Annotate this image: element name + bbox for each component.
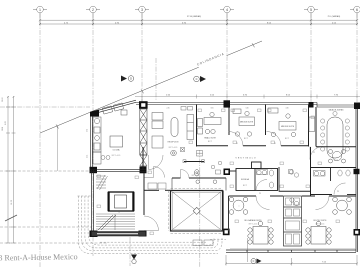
slanted top-left wall xyxy=(91,100,136,114)
office1 desk xyxy=(198,112,222,134)
grid bubble 1 xyxy=(33,6,47,13)
svg-text:MEDIUM SUITE: MEDIUM SUITE xyxy=(240,122,254,124)
column G3 top xyxy=(139,101,148,109)
wc right door arc xyxy=(334,183,346,195)
svg-text:3.40: 3.40 xyxy=(245,108,248,110)
svg-text:P1: P1 xyxy=(236,143,238,145)
corridor wall under offices xyxy=(197,145,309,147)
grid bubble 3 xyxy=(135,6,149,13)
svg-text:N.P.T. +0.15: N.P.T. +0.15 xyxy=(169,147,178,149)
patio center diamond xyxy=(193,207,200,214)
colindancia white halo xyxy=(195,47,227,69)
grid axis vertical 5 xyxy=(310,13,312,102)
horizontal dim short y227 xyxy=(0,226,92,228)
door arc office2 xyxy=(229,132,244,146)
svg-text:4.30: 4.30 xyxy=(285,108,288,110)
patio bottom dashes xyxy=(171,233,223,235)
partition office3/hall xyxy=(308,105,310,147)
reception side cabinets left xyxy=(152,113,163,149)
conference table xyxy=(327,117,343,158)
partition label boxes xyxy=(97,109,340,235)
wc center walls xyxy=(236,162,278,191)
hall bottom wall xyxy=(279,190,311,192)
reception top boxes xyxy=(181,107,193,111)
svg-text:RECEPCION: RECEPCION xyxy=(168,142,179,144)
section marker D xyxy=(121,76,134,82)
door arc conference xyxy=(310,147,323,160)
svg-text:2.62: 2.62 xyxy=(87,129,89,132)
svg-text:N.P.T.: N.P.T. xyxy=(244,138,249,140)
conference chairs left xyxy=(321,119,325,151)
grid bubble 6 xyxy=(350,6,360,13)
svg-text:3.15: 3.15 xyxy=(87,155,89,158)
kitchen counters left xyxy=(93,117,101,164)
bottom dim labels xyxy=(256,262,327,264)
suites bottom window wall xyxy=(226,250,356,252)
stair right wall xyxy=(143,173,145,215)
conference bottom wall xyxy=(316,146,356,148)
svg-text:SALA DE JUNTAS: SALA DE JUNTAS xyxy=(329,109,345,112)
svg-text:VESTIBULO: VESTIBULO xyxy=(235,158,256,160)
svg-text:N.P.T.: N.P.T. xyxy=(285,138,290,140)
grid bubble 2 xyxy=(86,6,100,13)
canopy dashed curve 1 xyxy=(79,196,219,254)
stair left wall xyxy=(92,170,94,234)
mid small furniture xyxy=(289,170,299,206)
landing small rects xyxy=(148,183,166,189)
corridor bottom wall segments xyxy=(144,189,171,191)
grid bubble numbers xyxy=(39,8,358,12)
vestibule south door xyxy=(181,170,190,179)
patio right wall thick xyxy=(222,191,224,232)
conference chairs right xyxy=(333,111,350,151)
suite left round table xyxy=(229,197,248,214)
wc center door arc xyxy=(256,180,267,191)
vestibule mid wall xyxy=(184,161,204,163)
stair up arrow xyxy=(98,215,113,230)
wc center fixtures xyxy=(257,170,274,189)
canopy dashed curve 4 xyxy=(88,196,214,245)
svg-text:P2: P2 xyxy=(313,152,315,154)
svg-text:N.P.T. +0.15: N.P.T. +0.15 xyxy=(249,224,258,226)
svg-text:4: 4 xyxy=(226,8,228,12)
fountain ellipse xyxy=(195,170,200,176)
horizontal dim dashed y171 xyxy=(0,170,92,172)
patio top dashes xyxy=(171,187,223,189)
elevator shaft xyxy=(109,192,134,211)
vestibule wall stub xyxy=(142,147,144,170)
partition reception/office1 xyxy=(196,105,198,147)
suites top wall xyxy=(229,195,357,197)
right exterior wall xyxy=(356,107,358,252)
svg-text:28.60: 28.60 xyxy=(2,127,4,131)
canopy dashed curve 3 xyxy=(85,196,218,248)
svg-text:28.60: 28.60 xyxy=(2,98,4,103)
section marker C xyxy=(194,76,206,82)
door arc office3 xyxy=(267,132,282,146)
stair hatch upper xyxy=(96,175,108,190)
suite right conference table xyxy=(306,221,331,244)
column G4 top xyxy=(224,100,231,107)
column G6 top xyxy=(354,103,360,110)
grid bubble 4 xyxy=(220,6,234,13)
svg-text:N.P.T. +0.15: N.P.T. +0.15 xyxy=(316,224,325,226)
grid axis horizontal A xyxy=(0,106,90,108)
canopy dashed curve 2 xyxy=(82,196,222,251)
svg-text:BIG TEC SUITE: BIG TEC SUITE xyxy=(314,220,328,222)
patio lower table xyxy=(193,240,213,246)
center service fixtures xyxy=(286,198,300,244)
hall west wall xyxy=(278,167,280,192)
vestibule small circles right xyxy=(211,161,222,174)
right top room table xyxy=(329,150,346,164)
patio inner line xyxy=(172,192,220,229)
svg-text:P3: P3 xyxy=(259,193,261,195)
grid axis vertical 3 xyxy=(141,13,143,103)
column patio-suite xyxy=(223,229,230,236)
grid axis vertical 6 xyxy=(356,13,358,102)
dimension labels top xyxy=(64,15,340,24)
column G3 mid xyxy=(140,167,147,174)
canopy dashed line inner xyxy=(100,241,206,243)
top dim labels over wall xyxy=(166,95,339,97)
kitchen door arc xyxy=(149,155,164,170)
svg-text:3.05: 3.05 xyxy=(210,108,213,110)
column G6 mid xyxy=(354,169,360,174)
horizontal dim dashed y243 xyxy=(0,242,108,244)
column stair bottom-left xyxy=(90,231,98,238)
patio diagonals xyxy=(171,191,223,232)
column G5 top xyxy=(309,102,314,108)
kitchen-stair wall xyxy=(90,169,146,171)
svg-text:1: 1 xyxy=(39,8,41,12)
grid axis vertical 4 xyxy=(226,13,228,102)
npt room labels xyxy=(112,138,339,226)
corner column wedge xyxy=(90,110,99,117)
left dim arrow tick xyxy=(5,215,17,221)
column suite bottom-right xyxy=(354,229,360,235)
top dim line over wall xyxy=(135,95,360,104)
svg-text:N.P.T. +0.15: N.P.T. +0.15 xyxy=(192,175,201,177)
ramp centerline xyxy=(129,237,131,266)
kitchen island xyxy=(110,136,123,147)
column-bathroom link wall xyxy=(230,170,236,172)
partition office1/office2 xyxy=(228,108,230,136)
kitchen small table xyxy=(101,156,110,160)
stair treads xyxy=(96,214,135,230)
svg-text:N.P.T.: N.P.T. xyxy=(334,160,339,162)
left vertical dimension line 2 xyxy=(12,96,16,243)
svg-text:P3: P3 xyxy=(337,191,339,193)
vestibule drain circle xyxy=(171,150,177,156)
svg-text:2.45: 2.45 xyxy=(166,108,169,110)
vestibule column circle B xyxy=(213,180,217,184)
kitchen upper cabinets xyxy=(102,103,127,115)
svg-text:BODEGA: BODEGA xyxy=(241,178,249,181)
vestibule south wall stubs xyxy=(172,178,226,191)
svg-text:N.P.T.: N.P.T. xyxy=(243,185,248,187)
bottom marker C xyxy=(251,259,262,264)
right room partition xyxy=(310,147,312,196)
svg-text:SMALL SUITE: SMALL SUITE xyxy=(204,137,216,140)
svg-text:P.V. (VARIAS): P.V. (VARIAS) xyxy=(328,15,341,18)
svg-text:2: 2 xyxy=(92,8,94,12)
reception shelving wall xyxy=(140,109,147,166)
stair bottom wall xyxy=(92,232,146,237)
left vertical dimension line 1 xyxy=(6,96,10,243)
svg-text:6: 6 xyxy=(356,8,358,12)
top dimension line B xyxy=(40,23,357,25)
wall dim strings top offices xyxy=(166,108,288,110)
svg-text:5: 5 xyxy=(310,8,312,12)
svg-text:MEDIUM SUITE: MEDIUM SUITE xyxy=(281,126,295,128)
grid axis vertical 2 xyxy=(92,13,94,256)
svg-text:3: 3 xyxy=(141,8,143,12)
center service block xyxy=(284,196,302,246)
svg-text:3 Rent-A-House Mexico: 3 Rent-A-House Mexico xyxy=(0,252,78,262)
small door labels xyxy=(236,143,339,195)
entry centerline xyxy=(155,58,157,100)
suite door arcs xyxy=(256,196,270,210)
svg-text:BIG GARAGE SUITE: BIG GARAGE SUITE xyxy=(244,219,262,222)
bottom dim line suites xyxy=(225,255,358,266)
vestibule X box xyxy=(181,148,185,152)
stair exit door xyxy=(144,167,165,178)
svg-text:N.P.T.: N.P.T. xyxy=(208,141,213,143)
left exterior wall kitchen xyxy=(90,113,92,170)
patio left dashes xyxy=(167,191,169,232)
svg-text:COCINA: COCINA xyxy=(113,149,121,152)
grid bubble 5 xyxy=(304,6,318,13)
stair door arc xyxy=(144,216,159,231)
column stair bottom-right xyxy=(139,231,147,237)
bottom marker V xyxy=(131,255,137,264)
property diagonal line xyxy=(40,41,262,133)
svg-text:C: C xyxy=(196,77,198,81)
column kitchen bottom-left xyxy=(90,167,98,173)
column G4 mid xyxy=(224,169,231,176)
svg-text:D: D xyxy=(130,77,132,81)
partition conference left wall xyxy=(315,107,317,147)
canopy dashed line right xyxy=(210,239,226,241)
svg-text:C: C xyxy=(253,260,255,263)
terrace edge line xyxy=(56,126,58,171)
svg-text:N.P.T. +0.15: N.P.T. +0.15 xyxy=(112,155,121,157)
svg-text:37.90 (VARIAS): 37.90 (VARIAS) xyxy=(187,15,201,18)
canopy top dashes xyxy=(78,195,92,197)
left axis tick text marks xyxy=(2,127,4,131)
reception oval table xyxy=(171,118,178,137)
vestibule south wall xyxy=(172,177,226,179)
vestibule mid wall boxes xyxy=(183,160,205,163)
top dimension line A xyxy=(40,13,357,25)
svg-text:14.30: 14.30 xyxy=(11,199,13,205)
partition office2/office3 xyxy=(265,105,267,136)
office2 desk xyxy=(233,109,255,136)
reception right shelving xyxy=(187,115,194,140)
svg-text:P1: P1 xyxy=(274,143,276,145)
suites window sill line xyxy=(230,247,356,249)
elevator side walls xyxy=(108,192,110,211)
wc right walls xyxy=(311,168,357,195)
kitchen wall rotated labels xyxy=(87,129,89,158)
bottom center dim vertical xyxy=(247,238,249,262)
suite left wall xyxy=(228,196,230,231)
vestibule column circle A xyxy=(196,180,200,184)
svg-text:S: S xyxy=(118,212,119,214)
patio centerline xyxy=(199,150,201,267)
dimension tick marks xyxy=(39,19,358,25)
wc right fixtures xyxy=(314,170,351,176)
suite left conference table xyxy=(248,221,273,244)
grid axis vertical 1 xyxy=(39,13,41,267)
top exterior wall offices xyxy=(136,103,360,108)
diagonal tick marks xyxy=(56,43,255,128)
office3 desk xyxy=(268,108,315,137)
vestibule small rects xyxy=(197,151,203,157)
patio square xyxy=(171,191,223,232)
suite right round table xyxy=(333,197,352,214)
